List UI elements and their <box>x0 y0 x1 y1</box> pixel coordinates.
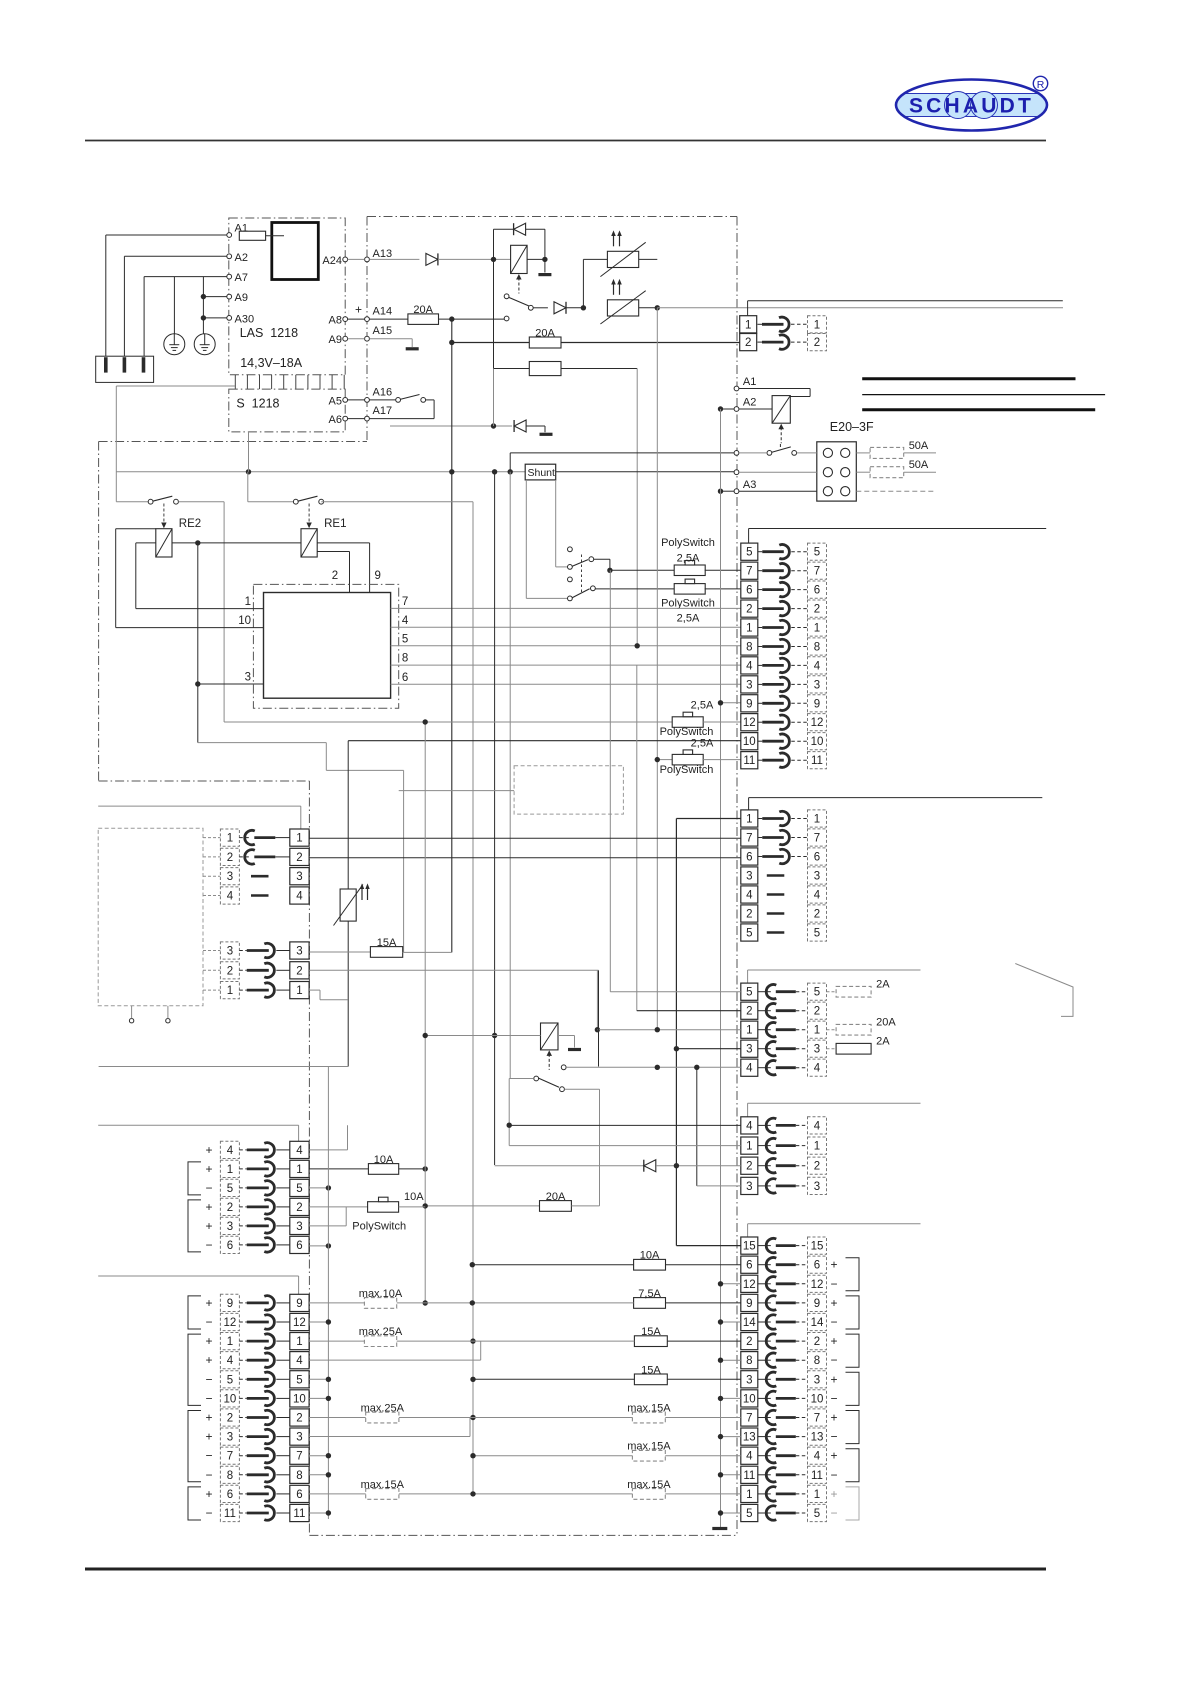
controller pin 7 wire <box>391 607 741 609</box>
svg-text:+: + <box>830 1372 837 1386</box>
connector J9 pin 3 <box>220 1428 239 1445</box>
connector J2 pin 1 <box>741 810 758 827</box>
bus vertical 473 <box>472 502 474 1494</box>
connector J9 pin 12 <box>220 1313 239 1330</box>
svg-text:max.25A: max.25A <box>359 1326 403 1338</box>
svg-text:13: 13 <box>743 1432 756 1444</box>
svg-text:50A: 50A <box>909 440 929 452</box>
connector J7 pin 1 <box>220 982 239 999</box>
connector J8 pin 1 <box>220 1160 239 1177</box>
svg-text:4: 4 <box>402 615 409 627</box>
pump relay wiring <box>492 1033 497 1038</box>
svg-text:6: 6 <box>746 1260 752 1272</box>
svg-text:10: 10 <box>293 1393 306 1405</box>
svg-text:4: 4 <box>746 890 753 902</box>
svg-text:6: 6 <box>814 852 820 864</box>
fuse max.15A row G6 <box>309 1493 366 1495</box>
svg-text:4: 4 <box>746 1451 753 1463</box>
svg-text:3: 3 <box>814 1181 820 1193</box>
fuse 2A on C5 <box>827 991 837 993</box>
svg-text:RE1: RE1 <box>324 518 346 530</box>
svg-text:−: − <box>830 1506 837 1520</box>
diode D1 on A13 line <box>426 253 438 265</box>
heater output wire to right edge <box>657 307 1063 309</box>
svg-text:1: 1 <box>296 1336 302 1348</box>
connector J4 pin 4 <box>741 1117 758 1134</box>
svg-text:+: + <box>205 1334 212 1348</box>
charger internal module <box>272 223 319 280</box>
svg-text:12: 12 <box>224 1317 237 1329</box>
wire F3 joins F2 <box>309 1225 346 1227</box>
wire switch to diode D3 <box>533 307 548 309</box>
svg-text:4: 4 <box>746 1120 753 1132</box>
svg-text:2A: 2A <box>876 1036 890 1048</box>
node A1 <box>734 386 739 391</box>
svg-text:5: 5 <box>227 1374 233 1386</box>
pin A9 left <box>227 294 232 299</box>
connector J3 pin 2 <box>741 1002 758 1019</box>
svg-text:12: 12 <box>293 1317 306 1329</box>
connector J3 pin 3 <box>741 1040 758 1057</box>
connector J5 pin 3 <box>741 1371 758 1388</box>
svg-text:S 1218: S 1218 <box>236 397 279 411</box>
svg-text:R: R <box>1037 79 1045 91</box>
controller pin 8 wire <box>391 664 741 666</box>
fuse max.15A row E4 <box>473 1455 632 1457</box>
bus 696 vertical <box>696 1067 698 1186</box>
svg-text:12: 12 <box>811 717 824 729</box>
svg-text:3: 3 <box>296 1221 302 1233</box>
connector J9 pin 7 <box>220 1447 239 1464</box>
svg-text:Shunt: Shunt <box>528 467 556 479</box>
wire D3 <box>697 1185 741 1187</box>
wire RE1 to controller pin 2 <box>317 551 349 553</box>
wire I2 <box>309 969 598 971</box>
svg-text:3: 3 <box>814 871 820 883</box>
PolySwitch 2,5A fuse pin7 <box>674 565 705 576</box>
row F6 minus <box>309 1245 328 1247</box>
connector J1 pin 10 <box>741 733 758 750</box>
heater right bus <box>639 258 658 260</box>
row 9 minus stub <box>721 702 741 704</box>
svg-text:4: 4 <box>227 1145 234 1157</box>
bracket J5 pair 1-5 gray <box>846 1487 860 1520</box>
fuse max.25A row G2 <box>309 1417 366 1419</box>
svg-text:A13: A13 <box>373 248 393 260</box>
svg-text:2: 2 <box>746 1161 752 1173</box>
bus minus left vertical <box>327 1067 329 1520</box>
fuse 20A on C1 <box>827 1029 837 1031</box>
svg-text:+: + <box>205 1296 212 1310</box>
fuse block E20-3F <box>817 442 857 501</box>
svg-text:2: 2 <box>296 1202 302 1214</box>
svg-text:max.25A: max.25A <box>361 1403 405 1415</box>
svg-text:LAS 1218: LAS 1218 <box>240 326 298 340</box>
elektroblock border bottom <box>309 1534 737 1536</box>
connector J2 pin 4 <box>741 886 758 903</box>
svg-text:5: 5 <box>814 1508 820 1520</box>
wire E15 <box>676 1245 740 1247</box>
connector J5 pin 12 <box>741 1275 758 1292</box>
svg-text:4: 4 <box>227 891 234 903</box>
svg-text:15A: 15A <box>641 1364 661 1376</box>
svg-text:8: 8 <box>746 642 752 654</box>
connector J5 pin 10 <box>741 1390 758 1407</box>
svg-text:3: 3 <box>746 1044 752 1056</box>
connector J6 pin 1 <box>220 829 239 846</box>
row E13 minus <box>721 1436 741 1438</box>
svg-text:8: 8 <box>402 653 408 665</box>
svg-text:20A: 20A <box>535 328 555 340</box>
svg-text:max.15A: max.15A <box>361 1479 405 1491</box>
relay RE1 coil <box>301 529 317 557</box>
earth symbol 1 <box>164 334 185 355</box>
pin A7 <box>227 274 232 279</box>
connector J9 pin 1 <box>220 1333 239 1350</box>
wire C4 line <box>561 1065 566 1070</box>
minus stubs G <box>309 1321 328 1323</box>
wire A2 to plug <box>124 255 226 257</box>
svg-text:4: 4 <box>814 890 821 902</box>
fuse PolySwitch 10A row F2 <box>309 1206 368 1208</box>
trennrelais coil <box>772 396 790 424</box>
svg-text:7: 7 <box>746 833 752 845</box>
fuse 2A on C3 <box>827 1048 837 1050</box>
svg-text:12: 12 <box>811 1279 824 1291</box>
pin A6 <box>343 416 348 421</box>
svg-text:9: 9 <box>814 1298 820 1310</box>
elektroblock border right <box>736 217 738 1536</box>
svg-text:1: 1 <box>746 1489 752 1501</box>
battery selector switch pole 2 <box>568 577 573 582</box>
connector J9 pin 11 <box>220 1504 239 1521</box>
svg-text:9: 9 <box>296 1298 302 1310</box>
pump relay coil <box>541 1023 559 1050</box>
heating element R2 <box>607 300 638 316</box>
svg-text:2: 2 <box>296 965 302 977</box>
svg-text:10A: 10A <box>374 1154 394 1166</box>
wire D1 <box>509 1145 741 1147</box>
svg-text:1: 1 <box>227 985 233 997</box>
elektroblock border top <box>367 216 737 218</box>
svg-text:5: 5 <box>814 987 820 999</box>
PTC heater symbol mid-left <box>340 889 356 921</box>
connector J7 pin 2 <box>220 962 239 979</box>
connector J3 feed wire <box>748 969 921 971</box>
svg-text:3: 3 <box>814 1374 820 1386</box>
svg-text:+: + <box>830 1487 837 1501</box>
svg-text:2: 2 <box>746 1336 752 1348</box>
main AC/DC distribution wire <box>116 471 525 473</box>
controller block <box>264 593 391 699</box>
bus vertical 510 <box>509 472 511 1079</box>
svg-text:13: 13 <box>811 1432 824 1444</box>
svg-text:7: 7 <box>814 566 820 578</box>
wire A6 A17 <box>365 416 370 421</box>
svg-text:8: 8 <box>296 1470 302 1482</box>
wire D2 with diode <box>495 1165 644 1167</box>
connector J4 pin 2 <box>741 1157 758 1174</box>
svg-text:1: 1 <box>746 1141 752 1153</box>
wire relay NO to D1 <box>564 1088 599 1090</box>
svg-text:1: 1 <box>245 596 251 608</box>
charger LAS 1218 outline <box>229 218 345 375</box>
svg-text:max.15A: max.15A <box>627 1441 671 1453</box>
svg-text:3: 3 <box>746 871 752 883</box>
svg-text:A24: A24 <box>322 255 342 267</box>
connector J1 feed wire <box>749 528 1047 530</box>
relay K1 contact switch <box>504 294 509 299</box>
svg-text:A3: A3 <box>743 479 756 491</box>
connector J5 pin 13 <box>741 1428 758 1445</box>
svg-text:10: 10 <box>811 1393 824 1405</box>
wire H2 to B6 <box>309 857 741 859</box>
svg-text:2,5A: 2,5A <box>691 700 714 712</box>
controller pin 5 wire <box>391 645 741 647</box>
connector J9 pin 5 <box>220 1371 239 1388</box>
wire main line to RE1 switch <box>247 472 249 502</box>
row E8 minus <box>721 1359 741 1361</box>
svg-text:−: − <box>205 1315 212 1329</box>
svg-text:5: 5 <box>296 1374 302 1386</box>
svg-text:2: 2 <box>227 852 233 864</box>
svg-text:3: 3 <box>296 1432 302 1444</box>
svg-text:11: 11 <box>743 755 755 767</box>
wire to E20 row1 <box>510 452 734 454</box>
connector J5 pin 7 <box>741 1409 758 1426</box>
svg-text:3: 3 <box>245 671 251 683</box>
svg-text:A16: A16 <box>373 386 393 398</box>
connector J1 pin 2 <box>741 600 758 617</box>
controller pin 1 <box>136 608 264 610</box>
svg-text:7,5A: 7,5A <box>638 1288 661 1300</box>
connector J2 pin 6 <box>741 848 758 865</box>
svg-text:2: 2 <box>814 909 820 921</box>
svg-text:A14: A14 <box>373 305 393 317</box>
svg-text:A6: A6 <box>329 414 342 426</box>
controller pin 6 wire <box>391 683 741 685</box>
connector J9 pin 6 <box>220 1485 239 1502</box>
svg-text:5: 5 <box>746 1508 752 1520</box>
svg-text:A30: A30 <box>235 313 255 325</box>
battery selector switch pole 1 <box>568 547 573 552</box>
svg-text:PolySwitch: PolySwitch <box>661 598 715 610</box>
svg-text:−: − <box>205 1372 212 1386</box>
svg-text:3: 3 <box>814 1044 820 1056</box>
connector J5 pin 15 <box>741 1237 758 1254</box>
callout bracket right <box>1015 964 1073 1017</box>
svg-text:2: 2 <box>745 337 751 349</box>
connector J5 feed wire <box>748 1223 921 1225</box>
shunt output wire to E20 <box>556 471 734 473</box>
shunt lower legs <box>525 480 527 599</box>
connector J8 pin 6 <box>220 1236 239 1253</box>
connector J1 pin 5 <box>741 543 758 560</box>
brackets J8 <box>188 1162 201 1195</box>
E20 row2 wiring + 50A fuse <box>734 470 739 475</box>
wire F4 up <box>309 1149 347 1151</box>
svg-text:3: 3 <box>296 946 302 958</box>
svg-text:max.10A: max.10A <box>359 1288 403 1300</box>
connector J9 pin 8 <box>220 1466 239 1483</box>
connector J8 pin 3 <box>220 1217 239 1234</box>
svg-text:1: 1 <box>814 1141 820 1153</box>
svg-text:+: + <box>205 1219 212 1233</box>
flyback diode D2 <box>494 228 514 230</box>
svg-text:20A: 20A <box>876 1017 896 1029</box>
svg-text:7: 7 <box>227 1451 233 1463</box>
svg-text:3: 3 <box>227 871 233 883</box>
controller pin 4 wire <box>391 626 741 628</box>
svg-text:6: 6 <box>814 585 820 597</box>
node A24-A13 wire <box>365 257 370 262</box>
svg-text:7: 7 <box>402 596 408 608</box>
svg-text:10: 10 <box>743 1393 756 1405</box>
PolySwitch 2,5A fuse pin6 <box>674 584 705 595</box>
bottom rule <box>85 1568 1046 1571</box>
svg-text:4: 4 <box>296 891 303 903</box>
connector J5 pin 1 <box>741 1485 758 1502</box>
svg-text:5: 5 <box>227 1183 233 1195</box>
svg-text:5: 5 <box>296 1183 302 1195</box>
wire A9 junction <box>203 296 226 298</box>
svg-text:4: 4 <box>814 660 821 672</box>
relay K1 wiring <box>491 257 496 262</box>
relay RE1 switch <box>293 499 298 504</box>
connector J3 pin 5 <box>741 983 758 1000</box>
bus heater sense vertical 657 <box>656 308 658 1030</box>
relay RE2 switch <box>116 501 148 503</box>
svg-text:4: 4 <box>814 1451 821 1463</box>
svg-text:3: 3 <box>814 679 820 691</box>
svg-text:8: 8 <box>746 1355 752 1367</box>
connector J3 pin 4 <box>741 1059 758 1076</box>
svg-text:9: 9 <box>375 570 381 582</box>
thick battery line 2 <box>862 408 1095 411</box>
wire C1 line <box>596 970 598 1029</box>
svg-text:−: − <box>205 1449 212 1463</box>
svg-text:+: + <box>355 303 362 317</box>
block C feed wires <box>609 570 611 991</box>
connector J1 pin 9 <box>741 695 758 712</box>
svg-text:1: 1 <box>227 1336 233 1348</box>
svg-text:1: 1 <box>746 1025 752 1037</box>
svg-text:−: − <box>830 1430 837 1444</box>
svg-text:2,5A: 2,5A <box>677 613 700 625</box>
svg-text:2: 2 <box>296 1413 302 1425</box>
svg-text:50A: 50A <box>909 459 929 471</box>
connector J2 pin 2 <box>741 905 758 922</box>
svg-text:11: 11 <box>743 1470 755 1482</box>
svg-text:10A: 10A <box>404 1191 424 1203</box>
shunt box <box>525 464 556 480</box>
fuse on A1 line <box>239 231 265 240</box>
fuse max.10A row G9 <box>309 1302 364 1304</box>
thick battery line 1 <box>862 377 1075 380</box>
connector J6 pin 4 <box>220 887 239 904</box>
svg-text:A1: A1 <box>743 376 756 388</box>
row E10 minus <box>721 1397 741 1399</box>
connector J2 pin 5 <box>741 924 758 941</box>
border step horizontal <box>99 441 367 443</box>
svg-text:1: 1 <box>296 833 302 845</box>
row F5 minus <box>309 1187 328 1189</box>
svg-text:8: 8 <box>814 1355 820 1367</box>
svg-text:+: + <box>205 1487 212 1501</box>
svg-text:1: 1 <box>814 623 820 635</box>
heater bus left vertical <box>581 305 586 310</box>
svg-text:2: 2 <box>746 604 752 616</box>
connector J2 feed wire <box>749 797 1043 799</box>
fuse max.15A row E1 <box>632 1489 665 1500</box>
wire G3 joins G2 <box>309 1436 470 1438</box>
svg-text:5: 5 <box>746 547 752 559</box>
svg-text:11: 11 <box>224 1508 236 1520</box>
svg-text:6: 6 <box>402 672 408 684</box>
connector J5 pin 6 <box>741 1256 758 1273</box>
svg-text:7: 7 <box>296 1451 302 1463</box>
svg-text:2: 2 <box>814 1336 820 1348</box>
ground at pump relay <box>568 1048 581 1051</box>
wire RE1 to controller pin 9 <box>317 542 369 544</box>
svg-text:2: 2 <box>746 909 752 921</box>
svg-text:15A: 15A <box>377 937 397 949</box>
svg-text:+: + <box>830 1334 837 1348</box>
svg-text:7: 7 <box>814 1413 820 1425</box>
border step 2 horizontal <box>99 780 310 782</box>
ground at D4 <box>540 433 553 436</box>
svg-text:10: 10 <box>811 736 824 748</box>
connector J6 pin 2 <box>220 848 239 865</box>
svg-text:PolySwitch: PolySwitch <box>661 537 715 549</box>
svg-text:1: 1 <box>814 1025 820 1037</box>
svg-text:7: 7 <box>814 833 820 845</box>
fuse 20A charging line <box>408 314 439 325</box>
connector J4 pin 3 <box>741 1177 758 1194</box>
connector J7 pin 3 <box>220 942 239 959</box>
svg-text:PolySwitch: PolySwitch <box>352 1221 406 1233</box>
relay RE2 coil <box>156 529 172 557</box>
svg-text:+: + <box>205 1411 212 1425</box>
connector J9 feed wire <box>98 1275 298 1277</box>
svg-text:1: 1 <box>814 319 820 331</box>
fuse 15A row E2 <box>470 1338 475 1343</box>
bus vertical 494 <box>494 472 496 1165</box>
connector J5 pin 4 <box>741 1447 758 1464</box>
svg-text:−: − <box>205 1391 212 1405</box>
connector J9 pin 10 <box>220 1390 239 1407</box>
E20 row1 wiring + 50A fuse <box>734 451 739 456</box>
svg-text:6: 6 <box>814 1260 820 1272</box>
svg-text:7: 7 <box>746 566 752 578</box>
svg-text:4: 4 <box>746 1063 753 1075</box>
row E14 minus <box>721 1321 741 1323</box>
svg-text:−: − <box>205 1238 212 1252</box>
svg-text:7: 7 <box>746 1413 752 1425</box>
wire G4 joins <box>309 1359 481 1361</box>
connector J1 pin 12 <box>741 714 758 731</box>
svg-text:3: 3 <box>746 1181 752 1193</box>
svg-text:A17: A17 <box>373 405 393 417</box>
connector J5 pin 5 <box>741 1504 758 1521</box>
svg-text:1: 1 <box>814 814 820 826</box>
svg-text:4: 4 <box>296 1145 303 1157</box>
svg-text:1: 1 <box>814 1489 820 1501</box>
svg-text:6: 6 <box>296 1489 302 1501</box>
wire from S1218 down-left <box>116 385 235 387</box>
earth symbol 2 <box>194 334 215 355</box>
connector J6 pin 3 <box>220 868 239 885</box>
